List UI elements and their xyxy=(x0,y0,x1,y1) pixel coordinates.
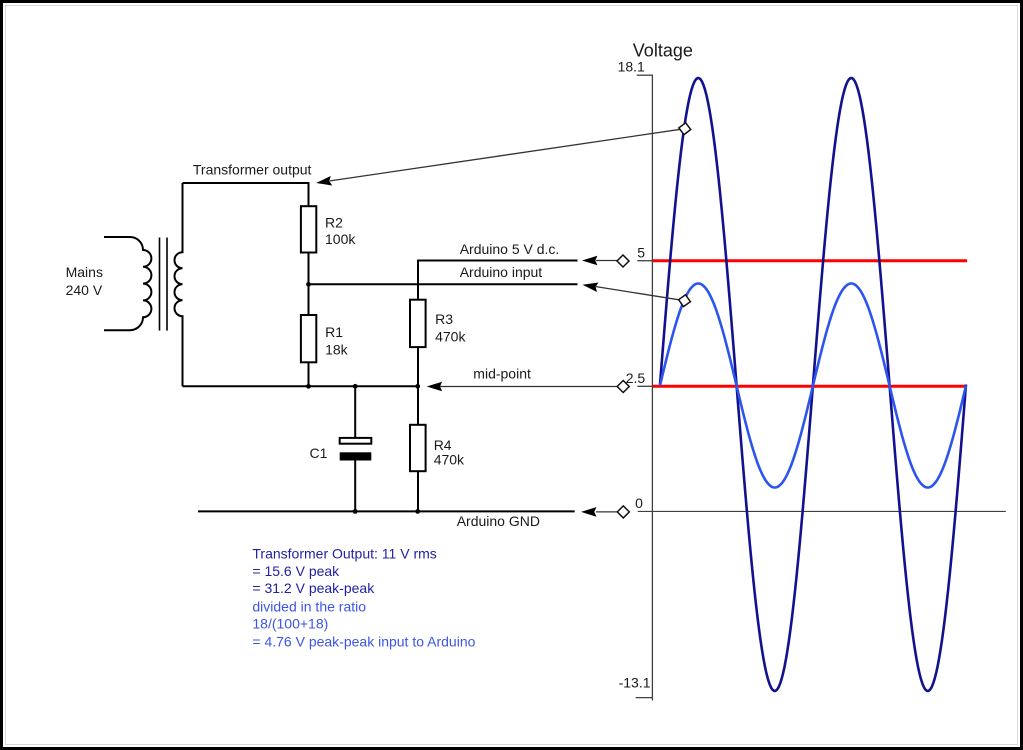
svg-text:R3: R3 xyxy=(435,311,453,327)
svg-text:Voltage: Voltage xyxy=(633,40,693,60)
svg-text:Arduino GND: Arduino GND xyxy=(457,513,540,529)
svg-text:C1: C1 xyxy=(310,445,328,461)
svg-text:0: 0 xyxy=(635,495,643,511)
svg-text:= 15.6 V peak: = 15.6 V peak xyxy=(252,563,340,579)
svg-text:240 V: 240 V xyxy=(66,282,103,298)
svg-text:Arduino 5 V d.c.: Arduino 5 V d.c. xyxy=(460,241,560,257)
svg-text:= 4.76 V peak-peak input to Ar: = 4.76 V peak-peak input to Arduino xyxy=(252,634,475,650)
svg-text:18k: 18k xyxy=(325,342,349,358)
svg-text:Mains: Mains xyxy=(66,264,103,280)
svg-text:R2: R2 xyxy=(325,215,343,231)
svg-text:Transformer Output: 11 V rms: Transformer Output: 11 V rms xyxy=(252,545,436,561)
svg-text:100k: 100k xyxy=(325,231,356,247)
svg-text:-13.1: -13.1 xyxy=(619,674,651,690)
svg-text:470k: 470k xyxy=(434,451,465,467)
svg-text:mid-point: mid-point xyxy=(473,366,531,382)
svg-text:2.5: 2.5 xyxy=(626,370,646,386)
svg-text:Arduino input: Arduino input xyxy=(460,264,543,280)
svg-text:470k: 470k xyxy=(435,329,466,345)
svg-text:18.1: 18.1 xyxy=(618,59,645,75)
svg-text:5: 5 xyxy=(637,245,645,261)
svg-text:= 31.2 V peak-peak: = 31.2 V peak-peak xyxy=(252,580,375,596)
svg-text:18/(100+18): 18/(100+18) xyxy=(252,616,328,632)
svg-text:Transformer output: Transformer output xyxy=(193,162,312,178)
svg-text:divided in the ratio: divided in the ratio xyxy=(252,599,366,615)
svg-text:R1: R1 xyxy=(325,324,343,340)
